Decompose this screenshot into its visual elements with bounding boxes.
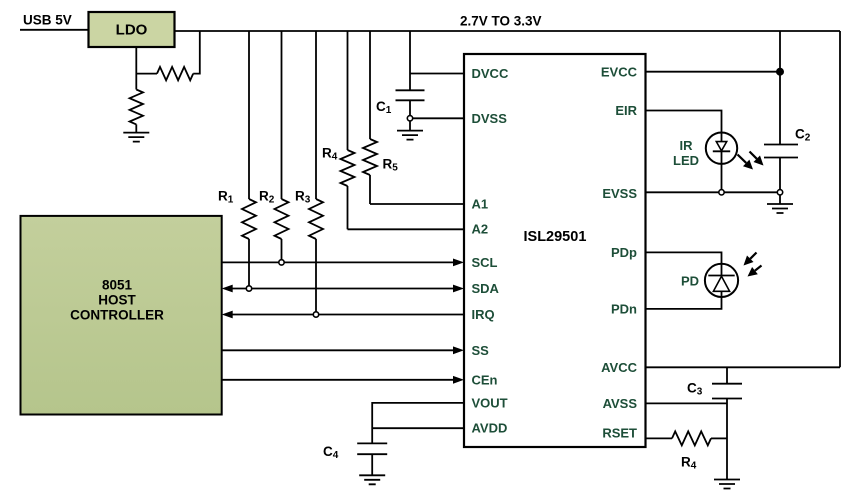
capacitor C4 [323,443,387,461]
svg-text:2.7V TO 3.3V: 2.7V TO 3.3V [460,14,542,29]
wire SCL with arrow into ISL29501 [222,259,464,267]
wire: A1 to ISL29501 [370,203,464,205]
resistor R4 (A2 pullup) [322,31,355,229]
svg-text:8051: 8051 [102,278,133,293]
wire: AVSS pin wire [646,402,728,404]
ground below LDO divider [123,133,149,142]
svg-text:AVDD: AVDD [472,421,508,436]
svg-text:EVSS: EVSS [602,186,637,201]
node: LED/EVSS junction circle [719,190,724,195]
IR LED emission arrows [738,152,764,170]
label IR LED [673,138,699,168]
svg-text:CEn: CEn [472,372,498,387]
node: C1/DVSS junction circle [407,116,412,121]
wire: rail down to C1 / DVCC [409,31,411,90]
wire: EVCC pin wire [646,71,781,73]
wire: DVSS node to ground [409,118,411,130]
wire: C3 bottom to ground [726,399,728,480]
svg-text:SCL: SCL [472,255,498,270]
wire: AVCC pin wire to right rail [646,366,841,368]
wire: right rail drop [839,31,841,367]
svg-text:ISL29501: ISL29501 [524,229,587,245]
wire: rail down through EVCC to C2 [779,31,781,145]
wire: EVSS node to ground [779,192,781,204]
resistor R2 [259,31,289,262]
svg-text:EIR: EIR [615,103,637,118]
svg-text:EVCC: EVCC [601,65,638,80]
diode IR LED [706,133,737,164]
wire: IR LED cathode to EVSS [721,164,723,192]
wire: C1 bottom to DVSS node [409,100,411,118]
svg-text:AVCC: AVCC [601,360,637,375]
wire SS with arrow into ISL29501 [222,346,464,354]
node: R3/IRQ junction circle [313,312,318,317]
svg-text:USB 5V: USB 5V [23,13,72,28]
wire: DVCC pin wire [410,73,464,75]
resistor feedback lower (node to ground) [130,90,143,125]
svg-text:VOUT: VOUT [472,396,508,411]
svg-text:DVCC: DVCC [472,66,509,81]
svg-text:CONTROLLER: CONTROLLER [70,308,164,323]
svg-text:SS: SS [472,343,490,358]
wire: resistor to ground [135,124,137,132]
node: R1/SDA junction circle [246,286,251,291]
photodiode PD [705,264,738,297]
ground below C2 [767,204,793,213]
svg-text:IRQ: IRQ [472,307,495,322]
PD incoming light arrows [744,253,762,277]
wire: PDp pin wire [646,252,722,264]
svg-text:PDn: PDn [611,302,637,317]
wire CEn with arrow into ISL29501 [222,376,464,384]
wire: LDO output down to feedback node [135,47,137,90]
wire: AVCC down to C3 [726,367,728,383]
ground below C4 [359,475,385,484]
node: EVCC junction dot [777,69,783,75]
svg-text:HOST: HOST [98,293,136,308]
wire: VOUT pin wire [372,403,464,444]
wire SDA bidirectional arrows [222,285,464,293]
svg-text:PDp: PDp [611,245,637,260]
wire: DVSS pin wire [410,117,464,119]
wire: AVDD pin wire [372,427,464,429]
ground below RSET/C3 [714,480,740,489]
capacitor C2 [764,127,811,158]
svg-text:A2: A2 [472,222,489,237]
resistor R3 [295,31,323,315]
svg-text:LED: LED [673,153,699,168]
resistor feedback upper (node to rail) [136,31,200,80]
op IC ISL29501 [464,54,646,447]
wire: 2.7V to 3.3V top rail [175,30,841,32]
wire: EVSS pin wire [646,191,781,193]
wire: A2 to ISL29501 [348,228,465,230]
svg-text:SDA: SDA [472,281,500,296]
svg-text:PD: PD [681,274,699,289]
node: C2/EVSS junction circle [777,190,782,195]
capacitor C1 [376,90,425,116]
svg-text:DVSS: DVSS [472,111,508,126]
wire: PDn pin wire [646,297,722,309]
svg-text:A1: A1 [472,197,489,212]
svg-text:RSET: RSET [602,426,637,441]
svg-text:AVSS: AVSS [603,396,638,411]
resistor R1 [218,31,256,289]
wire IRQ with arrow into 8051 [222,311,464,319]
svg-text:LDO: LDO [116,22,148,39]
wire: USB 5V input wire [20,29,88,31]
8051 host controller block [21,216,222,415]
node: R2/SCL junction circle [279,260,284,265]
ground below C1 [397,131,423,140]
wire: EIR pin wire to IR LED [646,111,722,134]
LDO regulator block [89,12,175,47]
resistor R4 (RSET) [646,431,728,471]
wire: C2 bottom to EVSS node [779,158,781,193]
resistor R5 (A1 pullup) [363,31,398,204]
wire: C4 to ground [371,454,373,475]
capacitor C3 [687,381,742,399]
svg-text:IR: IR [680,138,694,153]
